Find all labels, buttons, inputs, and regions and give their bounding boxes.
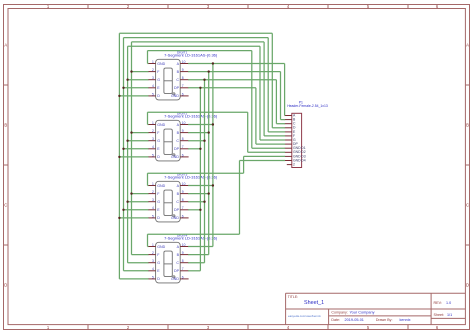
svg-text:Drawn By:: Drawn By: (376, 318, 393, 322)
wire net E: DIGIT2 pin branch (124, 148, 149, 150)
svg-text:REV:: REV: (434, 301, 442, 305)
svg-text:D: D (157, 216, 160, 220)
wire net B: DIGIT4 pin branch (188, 254, 209, 256)
P1 pin 2 (B) (285, 119, 292, 121)
junction net A at DIGIT2 (212, 123, 214, 125)
wire net C: drop to header (275, 80, 277, 124)
svg-text:C: C (176, 78, 179, 82)
wire net GND_D4: into header pin (240, 160, 286, 162)
svg-text:Sheet_1: Sheet_1 (304, 300, 324, 306)
svg-text:DP: DP (174, 86, 180, 90)
wire net B: drop to header (280, 72, 282, 120)
wire net GND_D1: pin1 branch (148, 63, 149, 65)
wire net G: left bus vertical (127, 46, 129, 263)
wire net D: drop to header (271, 33, 273, 128)
wire net GND_D4: pin1 branch (148, 246, 149, 248)
svg-text:C: C (176, 200, 179, 204)
P1 pin 10 (GND D2) (285, 151, 292, 153)
wire net E: top horizontal (124, 37, 269, 39)
wire net G: top horizontal (128, 45, 260, 47)
DIGIT1 pin 7 (DP) (180, 87, 188, 89)
svg-text:10: 10 (182, 243, 186, 247)
svg-text:10: 10 (182, 60, 186, 64)
wire net GND_D1: up-leg (147, 51, 149, 64)
wire net DP: drop to header (255, 88, 257, 144)
svg-text:2: 2 (293, 163, 295, 167)
svg-text:1: 1 (152, 121, 154, 125)
wire net GND_D2: drop to header row (247, 112, 249, 152)
DIGIT3 pin 2 (F) (148, 193, 156, 195)
DIGIT2 pin 3 (G) (148, 140, 156, 142)
svg-text:5: 5 (152, 153, 154, 157)
junction net F at DIGIT3 (130, 192, 132, 194)
wire net B: DIGIT1 row to header drop (188, 71, 280, 73)
wire net GND_D2: pin1 branch (148, 124, 149, 126)
DIGIT2 pin 7 (DP) (180, 148, 188, 150)
DIGIT1 pin 4 (E) (148, 87, 156, 89)
DIGIT2 pin 10 (A) (180, 124, 188, 126)
svg-text:D: D (157, 155, 160, 159)
svg-text:5: 5 (152, 275, 154, 279)
wire net A: into header pin (284, 115, 287, 117)
svg-text:kennix: kennix (400, 318, 411, 322)
junction net C at DIGIT2 (203, 140, 205, 142)
wire net GND_D1: over-run (148, 50, 252, 52)
svg-text:GND: GND (157, 123, 165, 127)
P1 pin 8 (DP) (285, 143, 292, 145)
wire net C: DIGIT1 row to header drop (188, 79, 276, 81)
P1 pin 3 (C) (285, 123, 292, 125)
DIGIT3 pin 10 (A) (180, 185, 188, 187)
wire net B: right bus vertical (208, 72, 210, 255)
DIGIT2 pin 6 (GND) (180, 156, 188, 158)
svg-text:GND: GND (157, 184, 165, 188)
P1 pin 6 (F) (285, 135, 292, 137)
svg-text:6: 6 (182, 153, 184, 157)
junction net C at DIGIT1 (203, 79, 205, 81)
7-segment display DIGIT2 LD-3161AS (156, 120, 181, 161)
wire net D: into header pin (272, 127, 285, 129)
junction net B at DIGIT2 (208, 131, 210, 133)
wire net DP: DIGIT4 pin branch (188, 270, 200, 272)
DIGIT1 seven-segment glyph (164, 68, 175, 95)
svg-text:2019-05-01: 2019-05-01 (345, 318, 364, 322)
DIGIT4 pin 3 (G) (148, 262, 156, 264)
svg-text:8: 8 (182, 76, 184, 80)
wire net A: drop to header (284, 64, 286, 116)
svg-text:DP: DP (174, 269, 180, 273)
svg-text:7-Segment LD-3161AS-(0.36): 7-Segment LD-3161AS-(0.36) (164, 236, 218, 241)
wire net GND_D4: over-run (148, 233, 240, 235)
junction net F at DIGIT1 (130, 70, 132, 72)
svg-text:easyeda.com/user/kennix: easyeda.com/user/kennix (288, 314, 321, 318)
svg-text:GND: GND (171, 94, 179, 98)
wire net GND_D1: into header pin (252, 147, 285, 149)
wire net E: left bus vertical (123, 38, 125, 271)
svg-text:Company:: Company: (331, 311, 347, 315)
svg-text:Sheet:: Sheet: (434, 313, 445, 317)
svg-text:B: B (466, 123, 469, 128)
DIGIT4 pin 4 (E) (148, 270, 156, 272)
DIGIT2 pin 9 (B) (180, 132, 188, 134)
DIGIT1 pin 3 (G) (148, 79, 156, 81)
P1 pin 4 (D) (285, 127, 292, 129)
DIGIT1 pin 2 (F) (148, 71, 156, 73)
wire net D: DIGIT4 pin branch (119, 278, 148, 280)
wire net E: drop to header (267, 38, 269, 132)
DIGIT3 seven-segment glyph (164, 190, 175, 217)
DIGIT4 pin 5 (D) (148, 278, 156, 280)
svg-text:TITLE:: TITLE: (288, 295, 299, 299)
wire net DP: DIGIT3 pin branch (188, 209, 200, 211)
junction net A at DIGIT3 (212, 184, 214, 186)
DIGIT3 pin 8 (C) (180, 201, 188, 203)
svg-text:DP: DP (174, 208, 180, 212)
junction net D at DIGIT1 (118, 95, 120, 97)
svg-text:3: 3 (152, 259, 154, 263)
wire net G: DIGIT3 pin branch (128, 201, 149, 203)
svg-text:8: 8 (182, 137, 184, 141)
junction net E at DIGIT2 (122, 148, 124, 150)
svg-text:7: 7 (182, 84, 184, 88)
DIGIT3 pin 4 (E) (148, 209, 156, 211)
svg-text:4: 4 (152, 84, 154, 88)
junction net E at DIGIT3 (122, 209, 124, 211)
P1 pin 13 (2) (287, 164, 292, 166)
svg-text:G: G (157, 261, 160, 265)
svg-text:9: 9 (182, 251, 184, 255)
svg-text:5: 5 (152, 92, 154, 96)
svg-text:1: 1 (152, 182, 154, 186)
svg-text:2: 2 (152, 190, 154, 194)
svg-text:6: 6 (182, 214, 184, 218)
svg-text:9: 9 (182, 190, 184, 194)
wire net GND_D4: up-leg (147, 234, 149, 246)
DIGIT2 pin 2 (F) (148, 132, 156, 134)
svg-text:7: 7 (182, 267, 184, 271)
P1 pin 7 (G) (285, 139, 292, 141)
wire net GND_D3: pin1 branch (148, 185, 149, 187)
wire net D: left bus vertical (118, 33, 120, 279)
wire net F: top horizontal (132, 41, 265, 43)
svg-text:GND: GND (171, 277, 179, 281)
wire net F: left bus vertical (131, 42, 133, 255)
svg-text:8: 8 (182, 259, 184, 263)
DIGIT2 pin 8 (C) (180, 140, 188, 142)
svg-text:C: C (466, 203, 469, 208)
DIGIT1 pin 1 (GND) (148, 63, 156, 65)
junction net DP at DIGIT1 (199, 87, 201, 89)
svg-text:1: 1 (152, 243, 154, 247)
junction net A at DIGIT1 (212, 62, 214, 64)
wire net F: DIGIT2 pin branch (132, 132, 149, 134)
DIGIT4 pin 6 (GND) (180, 278, 188, 280)
wire net G: DIGIT2 pin branch (128, 140, 149, 142)
connector P1 Header-Female-2.54_1x13 (292, 113, 302, 167)
wire net F: DIGIT1 pin branch (132, 71, 149, 73)
DIGIT4 pin 2 (F) (148, 254, 156, 256)
svg-text:1/1: 1/1 (447, 313, 452, 317)
svg-text:D4: D4 (301, 158, 305, 162)
wire net E: DIGIT3 pin branch (124, 209, 149, 211)
svg-text:2: 2 (152, 129, 154, 133)
wire net C: DIGIT4 pin branch (188, 262, 204, 264)
junction net E at DIGIT1 (122, 87, 124, 89)
svg-text:3: 3 (152, 137, 154, 141)
svg-text:B: B (4, 123, 7, 128)
svg-text:C: C (4, 203, 7, 208)
DIGIT3 pin 6 (GND) (180, 217, 188, 219)
wire net D: DIGIT1 pin branch (119, 95, 148, 97)
junction net D at DIGIT2 (118, 156, 120, 158)
wire net E: DIGIT1 pin branch (124, 87, 149, 89)
junction net F at DIGIT2 (130, 131, 132, 133)
DIGIT3 pin 3 (G) (148, 201, 156, 203)
wire net C: DIGIT3 pin branch (188, 201, 204, 203)
DIGIT2 seven-segment glyph (164, 129, 175, 156)
wire net DP: into header pin (256, 143, 285, 145)
DIGIT2 pin 1 (GND) (148, 124, 156, 126)
wire net F: into header pin (264, 135, 285, 137)
wire net DP: DIGIT2 pin branch (188, 148, 200, 150)
DIGIT4 seven-segment glyph (164, 251, 175, 278)
svg-text:G: G (157, 139, 160, 143)
wire net GND_D3: up-leg (147, 173, 149, 185)
P1 pin 1 (A) (285, 115, 292, 117)
junction net G at DIGIT3 (126, 201, 128, 203)
svg-text:8: 8 (182, 198, 184, 202)
svg-text:DP: DP (174, 147, 180, 151)
7-segment display DIGIT1 LD-3161AS (156, 59, 181, 100)
svg-text:G: G (157, 200, 160, 204)
wire net F: DIGIT3 pin branch (132, 193, 149, 195)
wire net D: DIGIT3 pin branch (119, 217, 148, 219)
wire net B: DIGIT3 pin branch (188, 193, 209, 195)
DIGIT4 pin 10 (A) (180, 246, 188, 248)
DIGIT4 pin 8 (C) (180, 262, 188, 264)
junction net G at DIGIT1 (126, 79, 128, 81)
wire net A: DIGIT3 pin branch (188, 185, 213, 187)
DIGIT3 pin 1 (GND) (148, 185, 156, 187)
DIGIT1 pin 6 (GND) (180, 95, 188, 97)
DIGIT3 pin 5 (D) (148, 217, 156, 219)
P1 pin 5 (E) (285, 131, 292, 133)
svg-text:4: 4 (152, 206, 154, 210)
junction net C at DIGIT3 (203, 201, 205, 203)
svg-text:A: A (4, 43, 7, 48)
wire net C: right bus vertical (204, 80, 206, 263)
svg-text:D: D (157, 94, 160, 98)
svg-text:GND: GND (157, 245, 165, 249)
svg-text:1.0: 1.0 (446, 301, 451, 305)
svg-text:D: D (157, 277, 160, 281)
title block (286, 293, 466, 324)
svg-text:D: D (4, 283, 7, 288)
DIGIT3 pin 9 (B) (180, 193, 188, 195)
wire net E: into header pin (268, 131, 285, 133)
DIGIT4 pin 7 (DP) (180, 270, 188, 272)
svg-text:C: C (176, 139, 179, 143)
wire net GND_D3: drop to header row (243, 156, 245, 173)
wire net A: right bus vertical (212, 64, 214, 247)
junction net B at DIGIT3 (208, 192, 210, 194)
svg-text:Your Company: Your Company (350, 311, 375, 315)
svg-text:7-Segment LD-3161AS-(0.36): 7-Segment LD-3161AS-(0.36) (164, 175, 218, 180)
svg-text:1: 1 (152, 60, 154, 64)
svg-text:9: 9 (182, 68, 184, 72)
svg-text:Date:: Date: (331, 318, 340, 322)
wire net D: DIGIT2 pin branch (119, 156, 148, 158)
svg-text:GND: GND (157, 62, 165, 66)
wire net GND_D1: drop to header row (251, 51, 253, 149)
svg-text:9: 9 (182, 129, 184, 133)
svg-text:C: C (176, 261, 179, 265)
wire net DP: DIGIT1 row to header drop (188, 87, 256, 89)
wire net A: DIGIT2 pin branch (188, 124, 213, 126)
DIGIT2 pin 4 (E) (148, 148, 156, 150)
svg-text:7: 7 (182, 206, 184, 210)
svg-text:4: 4 (152, 267, 154, 271)
svg-text:5: 5 (152, 214, 154, 218)
svg-text:10: 10 (182, 121, 186, 125)
junction net D at DIGIT3 (118, 217, 120, 219)
wire net B: into header pin (281, 119, 286, 121)
junction net G at DIGIT2 (126, 140, 128, 142)
DIGIT1 pin 10 (A) (180, 63, 188, 65)
wire net C: into header pin (276, 123, 285, 125)
junction net DP at DIGIT2 (199, 148, 201, 150)
svg-text:G: G (157, 78, 160, 82)
wire net GND_D2: up-leg (147, 112, 149, 124)
svg-text:D: D (466, 283, 469, 288)
wire net G: DIGIT1 pin branch (128, 79, 149, 81)
svg-text:7-Segment LD-3161AS-(0.36): 7-Segment LD-3161AS-(0.36) (164, 53, 218, 58)
svg-text:3: 3 (152, 76, 154, 80)
svg-text:A: A (466, 43, 469, 48)
P1 pin 11 (GND D3) (285, 155, 292, 157)
wire net A: DIGIT4 pin branch (188, 246, 213, 248)
wire net F: DIGIT4 pin branch (132, 254, 149, 256)
wire net GND_D2: over-run (148, 111, 248, 113)
wire net D: top horizontal (119, 32, 272, 34)
svg-text:4: 4 (152, 145, 154, 149)
svg-text:2: 2 (152, 251, 154, 255)
DIGIT1 pin 5 (D) (148, 95, 156, 97)
svg-text:7: 7 (182, 145, 184, 149)
svg-text:6: 6 (182, 92, 184, 96)
wire net C: DIGIT2 pin branch (188, 140, 204, 142)
svg-text:GND: GND (171, 216, 179, 220)
junction net DP at DIGIT3 (199, 209, 201, 211)
wire net DP: right bus vertical (199, 88, 201, 271)
DIGIT4 pin 9 (B) (180, 254, 188, 256)
junction net B at DIGIT1 (208, 70, 210, 72)
wire net GND_D3: into header pin (244, 155, 286, 157)
DIGIT1 pin 8 (C) (180, 79, 188, 81)
P1 pin 12 (GND D4) (285, 160, 292, 162)
wire net A: DIGIT1 row to header drop (188, 63, 285, 65)
svg-text:GND: GND (171, 155, 179, 159)
wire net B: DIGIT2 pin branch (188, 132, 209, 134)
wire net G: into header pin (260, 139, 285, 141)
DIGIT2 pin 5 (D) (148, 156, 156, 158)
wire net E: DIGIT4 pin branch (124, 270, 149, 272)
wire net GND_D4: drop to header row (239, 161, 241, 235)
svg-text:Header-Female-2.54_1x13: Header-Female-2.54_1x13 (287, 104, 328, 108)
7-segment display DIGIT4 LD-3161AS (156, 242, 181, 283)
wire net G: drop to header (259, 46, 261, 140)
DIGIT3 pin 7 (DP) (180, 209, 188, 211)
wire net F: drop to header (263, 42, 265, 136)
svg-text:2: 2 (152, 68, 154, 72)
7-segment display DIGIT3 LD-3161AS (156, 181, 181, 222)
DIGIT4 pin 1 (GND) (148, 246, 156, 248)
P1 pin 9 (GND D1) (285, 147, 292, 149)
wire net GND_D2: into header pin (248, 151, 285, 153)
svg-text:6: 6 (182, 275, 184, 279)
svg-text:10: 10 (182, 182, 186, 186)
wire net GND_D3: over-run (148, 172, 244, 174)
svg-text:7-Segment LD-3161AS-(0.36): 7-Segment LD-3161AS-(0.36) (164, 114, 218, 119)
wire net G: DIGIT4 pin branch (128, 262, 149, 264)
svg-text:3: 3 (152, 198, 154, 202)
DIGIT1 pin 9 (B) (180, 71, 188, 73)
